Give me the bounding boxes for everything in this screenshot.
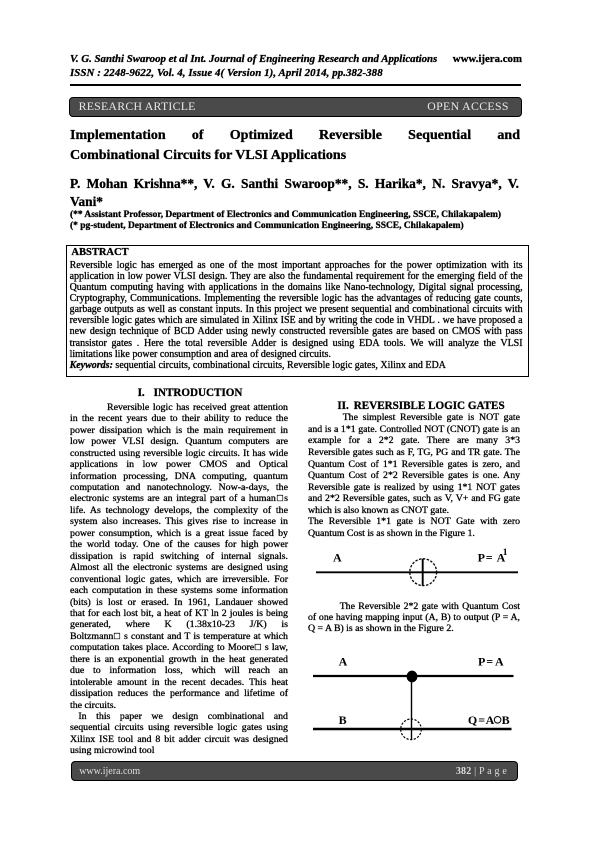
figure 1: reversible NOT gate <box>308 544 524 592</box>
title <box>70 126 520 166</box>
affiliations <box>70 210 522 232</box>
left column body <box>70 402 288 757</box>
fig2 control dot <box>407 671 418 683</box>
svg-text:=: = <box>478 713 485 727</box>
fig1 wire <box>316 571 518 573</box>
svg-text:B: B <box>502 713 510 727</box>
svg-text:A: A <box>333 550 342 564</box>
fig2 vertical link <box>411 677 413 740</box>
fig2 bottom wire <box>313 728 512 730</box>
fig2 target circle <box>401 719 422 740</box>
svg-text:1: 1 <box>503 548 508 558</box>
fig1 xor vertical line <box>422 559 424 586</box>
research article bar <box>69 97 522 117</box>
svg-text:P: P <box>478 550 485 564</box>
svg-text:=: = <box>486 655 493 669</box>
svg-text:Q: Q <box>468 713 477 727</box>
header line 1 <box>70 53 522 81</box>
svg-text:P: P <box>478 655 485 669</box>
right column body <box>308 412 520 539</box>
svg-text:A: A <box>486 713 495 727</box>
right column heading <box>308 400 520 413</box>
svg-text:A: A <box>339 655 348 669</box>
svg-text:=: = <box>486 550 493 564</box>
fig2 top wire <box>313 675 514 677</box>
authors <box>70 175 519 210</box>
fig1 xor circle <box>410 559 437 586</box>
svg-text:B: B <box>339 713 347 727</box>
left column heading <box>70 387 288 400</box>
svg-text:A: A <box>495 655 504 669</box>
right column paragraph 3 <box>308 601 520 635</box>
figure 2: CNOT gate <box>308 648 524 748</box>
footer bar <box>71 761 518 781</box>
header rule <box>70 84 521 86</box>
abstract box <box>66 245 529 377</box>
